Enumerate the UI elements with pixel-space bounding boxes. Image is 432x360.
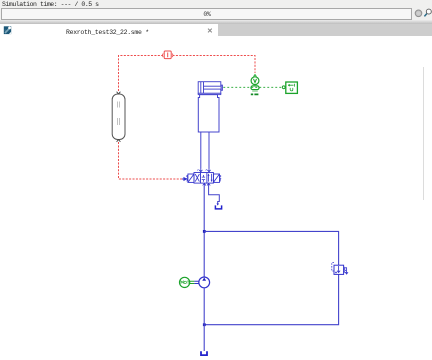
tank T1 (valve return) [215, 205, 221, 209]
tab close button [208, 29, 212, 33]
pilot arrow into valve [182, 178, 187, 181]
port stub P [203, 183, 206, 186]
position transducer u (green) [282, 82, 297, 93]
tank T2 (main) [201, 351, 207, 355]
toolbar magnifier icon [424, 9, 431, 16]
mass load m [198, 95, 219, 132]
left cell crossed arrows [195, 174, 199, 182]
setpoint element W1 (red) [163, 51, 173, 59]
left spring [187, 175, 188, 181]
toolbar clock icon [415, 10, 422, 17]
progress bar [1, 8, 412, 20]
right cell parallel arrows [209, 174, 212, 182]
separator band [0, 20, 432, 24]
cylinder bottom cap [198, 93, 221, 94]
status bar [0, 0, 432, 20]
velocity sensor V (green) [251, 75, 259, 95]
junction node top [203, 230, 206, 233]
valve body boxes [194, 173, 213, 184]
relief valve DBD [332, 263, 348, 275]
port stub A [199, 169, 202, 173]
junction node bottom [203, 323, 206, 326]
bypass loop wire lower [204, 274, 338, 324]
middle cell closed center [202, 175, 205, 182]
port stub T [207, 183, 210, 186]
port label marks [197, 169, 207, 170]
left solenoid [188, 174, 194, 182]
wire P valve down to pump [203, 186, 205, 277]
port stub B [207, 169, 210, 173]
bypass loop wire [204, 231, 338, 265]
cylinder Z1 [198, 82, 222, 94]
app icon in tab bar [4, 26, 11, 34]
active tab [0, 24, 218, 36]
wire A (blue) cylinder to valve [200, 132, 202, 169]
suction wire pump to tank [203, 288, 205, 351]
wire B (blue) cylinder to valve [208, 132, 210, 169]
arrowhead into tank [217, 203, 219, 205]
right spring [220, 175, 221, 181]
tab bar [0, 24, 432, 36]
right solenoid [213, 174, 219, 182]
electric motor M1 [180, 277, 190, 287]
page border line [423, 67, 425, 200]
signal wire (red dashed) amplifier to valve solenoid [119, 142, 183, 179]
measurement wire (green dashed) cylinder rod to transducer [223, 86, 283, 88]
coupling shaft [190, 281, 199, 283]
valve V1 4/3 proportional [187, 169, 221, 187]
wire T valve to tank [209, 186, 220, 205]
pump P1 [199, 277, 210, 288]
signal wire (red dashed) setpoint to corner [119, 56, 256, 92]
amplifier card A1 (capsule) [112, 92, 125, 142]
